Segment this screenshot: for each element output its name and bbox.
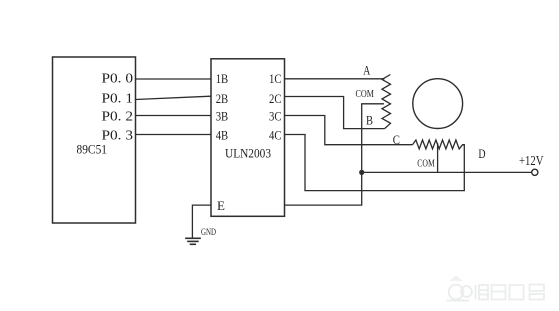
svg-text:COM: COM — [356, 89, 375, 100]
svg-text:2B: 2B — [216, 91, 229, 106]
svg-text:2C: 2C — [269, 91, 282, 106]
svg-text:ULN2003: ULN2003 — [225, 146, 271, 161]
svg-text:1C: 1C — [269, 71, 282, 86]
svg-text:COM: COM — [417, 158, 435, 169]
svg-text:89C51: 89C51 — [77, 142, 108, 157]
svg-text:C: C — [393, 132, 400, 147]
svg-text:A: A — [363, 62, 370, 77]
svg-text:GND: GND — [201, 228, 216, 238]
svg-text:4C: 4C — [269, 128, 282, 143]
svg-text:4B: 4B — [216, 128, 229, 143]
svg-text:3B: 3B — [216, 109, 229, 124]
svg-text:3C: 3C — [269, 109, 282, 124]
svg-text:P0. 2: P0. 2 — [102, 109, 134, 124]
svg-text:E: E — [217, 198, 225, 213]
svg-text:D: D — [478, 146, 485, 161]
svg-text:P0. 0: P0. 0 — [102, 71, 134, 86]
svg-text:B: B — [366, 113, 373, 128]
svg-text:1B: 1B — [216, 71, 229, 86]
svg-text:P0. 3: P0. 3 — [102, 127, 134, 142]
svg-text:P0. 1: P0. 1 — [102, 90, 134, 105]
svg-text:+12V: +12V — [519, 153, 544, 168]
